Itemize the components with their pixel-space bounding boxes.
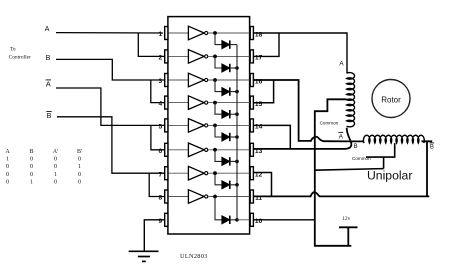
- diode D5: [222, 133, 230, 141]
- node A-bar (input): [46, 79, 51, 88]
- battery 12v: [339, 216, 358, 246]
- wire branch B to pin 4: [151, 80, 165, 103]
- wire output row to pin 12 inside IC: [208, 172, 249, 174]
- diode D3: [222, 87, 230, 95]
- wire input A-bar to pin 5: [56, 88, 165, 125]
- svg-text:9: 9: [158, 218, 162, 225]
- wire input A to pin 1: [56, 32, 163, 34]
- pin 9 (left): [158, 213, 167, 226]
- wire input B-bar to pin 7: [57, 117, 165, 173]
- svg-text:4: 4: [158, 101, 162, 108]
- truth table of drive sequence: [5, 149, 82, 185]
- wire diode stub row 3: [215, 80, 222, 92]
- wire diode stub row 5: [215, 125, 222, 137]
- pin 10 (right): [250, 213, 262, 226]
- node A-bar (coil A bottom): [338, 132, 343, 140]
- wire diode D4 cathode to common rail: [230, 112, 239, 116]
- svg-text:B: B: [47, 111, 52, 120]
- pin 7 (left): [158, 167, 167, 180]
- pin 11 (right): [250, 190, 262, 203]
- wire diode D5 cathode to common rail: [230, 135, 239, 139]
- svg-text:Common: Common: [352, 156, 371, 161]
- svg-text:12v: 12v: [342, 216, 350, 222]
- svg-text:B: B: [430, 144, 434, 150]
- pin 3 (left): [158, 74, 167, 87]
- inverter buffer U1h: [188, 190, 207, 204]
- svg-text:5: 5: [158, 124, 162, 131]
- inverter buffer U1f: [188, 143, 207, 157]
- diode D4: [222, 110, 230, 118]
- pin 13 (right): [250, 143, 262, 156]
- wire net Abar-drive: pin 13 to coil A bottom: [253, 128, 351, 149]
- node A (coil A top): [339, 61, 344, 68]
- pin 5 (left): [158, 119, 167, 132]
- label Unipolar: [367, 168, 412, 182]
- svg-text:2: 2: [158, 55, 162, 62]
- svg-text:To: To: [10, 47, 16, 53]
- svg-text:3: 3: [158, 78, 162, 85]
- svg-text:0: 0: [78, 180, 81, 186]
- node B-bar (input): [46, 111, 51, 120]
- svg-text:0: 0: [54, 164, 57, 170]
- pin 6 (left): [158, 143, 167, 156]
- svg-text:1: 1: [78, 164, 81, 170]
- wire net B-drive: pin 16 down to coil B left: [253, 80, 363, 141]
- svg-text:0: 0: [6, 172, 9, 178]
- IC U1 ULN2803 body: [168, 17, 250, 234]
- wire branch A to pin 2: [138, 33, 164, 56]
- svg-text:Rotor: Rotor: [381, 96, 401, 105]
- svg-text:1: 1: [30, 180, 33, 186]
- svg-text:A: A: [339, 133, 344, 140]
- wire diode stub row 8: [215, 197, 222, 220]
- wire input row pin 1 inside IC: [168, 32, 189, 34]
- pin 18 (right): [250, 27, 262, 40]
- wire diode stub row 4: [215, 103, 222, 115]
- wire branch pin 15 to pin 16 net: [253, 80, 273, 103]
- wire diode stub row 7: [215, 173, 222, 185]
- pin 1 (left): [158, 27, 167, 40]
- node B (coil B left): [354, 144, 358, 150]
- wire branch A-bar to pin 6: [151, 125, 165, 149]
- node output junction row 5: [213, 124, 217, 128]
- diode D7: [222, 181, 230, 189]
- svg-text:A: A: [5, 149, 10, 155]
- pin 17 (right): [250, 50, 262, 63]
- diode D1: [222, 40, 230, 48]
- wire diode D7 cathode to common rail: [230, 183, 239, 187]
- svg-text:0: 0: [78, 157, 81, 163]
- wire COM row to pin 10: [237, 219, 250, 221]
- inverter buffer U1d: [188, 96, 207, 110]
- wire input B to pin 3: [56, 59, 165, 80]
- svg-text:B: B: [46, 53, 51, 62]
- wire output row to pin 17 inside IC: [208, 55, 249, 57]
- node output junction row 1: [213, 31, 217, 35]
- inverter buffer U1c: [188, 73, 207, 87]
- wire output row to pin 13 inside IC: [208, 149, 249, 151]
- pin 12 (right): [250, 167, 262, 180]
- svg-text:Common: Common: [320, 120, 339, 125]
- node output junction row 7: [213, 171, 217, 175]
- wire input row pin 5 inside IC: [168, 124, 189, 126]
- svg-text:0: 0: [30, 164, 33, 170]
- diode D8: [222, 216, 230, 224]
- svg-text:A: A: [46, 79, 51, 88]
- wire net Bbar-drive: pin 11 to coil B right: [253, 192, 429, 196]
- rotor circle: [372, 80, 410, 118]
- svg-text:1: 1: [158, 31, 162, 38]
- ground: [129, 251, 159, 261]
- wire output row to pin 16 inside IC: [208, 79, 249, 81]
- wire branch pin 12 to pin 11 net: [253, 173, 271, 197]
- wire net A-drive: pin 18 to coil A top: [253, 33, 347, 73]
- svg-text:1: 1: [6, 157, 9, 163]
- svg-text:0: 0: [54, 180, 57, 186]
- coil B (horizontal winding): [363, 135, 424, 143]
- wire diode D8 cathode to common rail: [230, 218, 239, 222]
- svg-text:0: 0: [6, 180, 9, 186]
- label ULN2803: [180, 253, 208, 260]
- svg-text:B: B: [354, 144, 358, 150]
- wire branch pin 14 to pin 13 net: [253, 125, 290, 148]
- wire diode D1 cathode to common rail: [230, 44, 237, 46]
- svg-text:0: 0: [6, 164, 9, 170]
- svg-text:6: 6: [158, 148, 162, 155]
- wire diode stub row 1: [215, 33, 222, 45]
- pin 14 (right): [250, 119, 262, 132]
- svg-text:B': B': [77, 149, 82, 155]
- svg-text:A: A: [45, 24, 50, 33]
- node output junction row 4: [213, 101, 217, 105]
- wire output row to pin 18 inside IC: [208, 32, 249, 34]
- inverter buffer U1g: [188, 166, 207, 180]
- wire input row pin 7 inside IC: [168, 172, 189, 174]
- inverter buffer U1b: [188, 50, 207, 64]
- inverter buffer U1e: [188, 119, 207, 133]
- diode D6: [222, 157, 230, 165]
- wire input row pin 4 inside IC: [168, 102, 189, 104]
- wire diode D3 cathode to common rail: [230, 90, 239, 94]
- wire input row pin 6 inside IC: [168, 149, 189, 151]
- inverter buffer U1a: [188, 26, 207, 40]
- svg-text:0: 0: [54, 157, 57, 163]
- node B (input): [46, 53, 51, 62]
- wire input row pin 2 inside IC: [168, 55, 189, 57]
- coil A (vertical winding): [347, 73, 355, 127]
- pin 4 (left): [158, 96, 167, 109]
- node A (input): [45, 24, 50, 33]
- svg-text:0: 0: [30, 157, 33, 163]
- node output junction row 2: [213, 55, 217, 59]
- svg-text:7: 7: [158, 171, 162, 178]
- pin 15 (right): [250, 96, 262, 109]
- svg-text:0: 0: [30, 172, 33, 178]
- wire output row to pin 14 inside IC: [208, 124, 249, 126]
- svg-text:8: 8: [158, 195, 162, 202]
- wire coil B right end down: [422, 141, 433, 197]
- svg-text:1: 1: [54, 172, 57, 178]
- wire pin 9 to ground: [144, 220, 164, 252]
- svg-text:ULN2803: ULN2803: [180, 253, 208, 260]
- wire input row pin 3 inside IC: [168, 79, 189, 81]
- wire common diode rail: [236, 45, 238, 220]
- svg-text:Controller: Controller: [9, 55, 31, 61]
- diode D2: [222, 64, 230, 72]
- svg-text:A': A': [53, 149, 58, 155]
- wire diode D6 cathode to common rail: [230, 160, 239, 164]
- pin 16 (right): [250, 74, 262, 87]
- node output junction row 6: [213, 148, 217, 152]
- wire branch pin 17 to pin 18 net: [253, 33, 279, 56]
- label To Controller: [9, 47, 31, 61]
- wire diode stub row 6: [215, 150, 222, 162]
- node output junction row 3: [213, 78, 217, 82]
- wire coil A centre tap + common vertical to battery: [315, 99, 352, 246]
- label Common (coil A tap): [320, 120, 339, 125]
- wire output row to pin 15 inside IC: [208, 102, 249, 104]
- wire output row to pin 11 inside IC: [208, 196, 249, 198]
- svg-text:Unipolar: Unipolar: [367, 168, 412, 182]
- wire diode D2 cathode to common rail: [230, 66, 239, 70]
- pin 2 (left): [158, 50, 167, 63]
- wire branch B-bar to pin 8: [149, 173, 165, 196]
- wire pin 10 COM to supply common: [253, 219, 314, 221]
- wire diode stub row 2: [215, 56, 222, 68]
- node B-bar (coil B right): [430, 143, 434, 150]
- node output junction row 8: [213, 195, 217, 199]
- wire coil B centre tap to common: [315, 143, 395, 170]
- pin 8 (left): [158, 190, 167, 203]
- svg-text:A: A: [339, 61, 344, 68]
- svg-text:B: B: [29, 149, 33, 155]
- label Common (coil B tap): [352, 156, 371, 161]
- svg-text:0: 0: [78, 172, 81, 178]
- wire input row pin 8 inside IC: [168, 196, 189, 198]
